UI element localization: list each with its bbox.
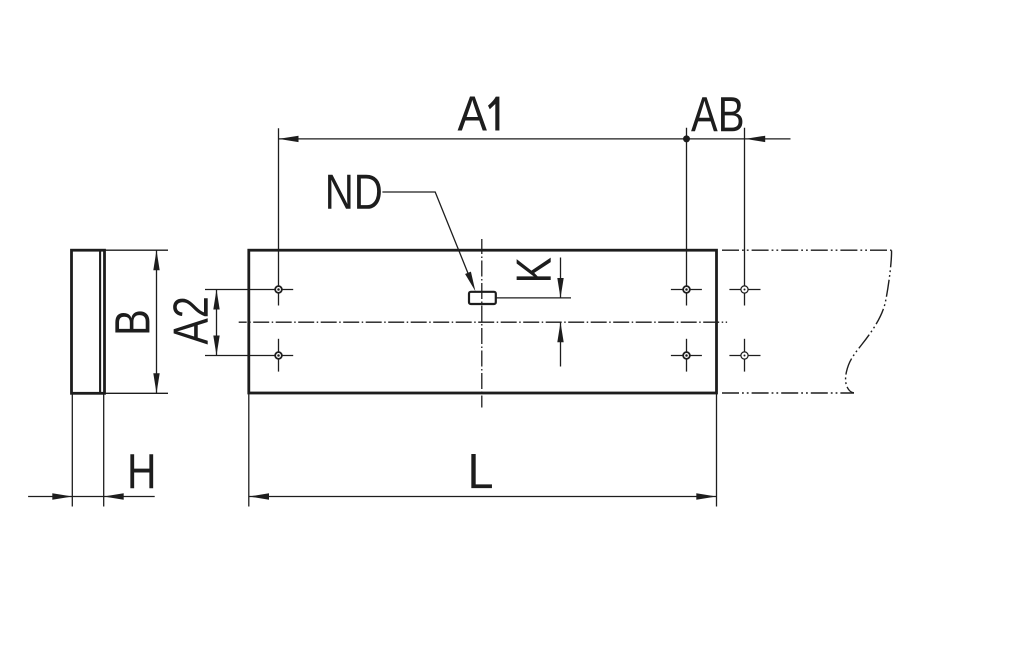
dimension H line bbox=[28, 496, 155, 498]
phantom hole top bbox=[741, 286, 748, 293]
upper crosshair right column bbox=[671, 289, 702, 291]
dimension K arrow up bbox=[557, 322, 563, 342]
lower crosshair right column bbox=[686, 339, 688, 372]
dimension L arrow left bbox=[249, 493, 269, 499]
extension line right for H bbox=[103, 393, 105, 506]
upper crosshair phantom column bbox=[729, 289, 760, 291]
extension line left for H bbox=[71, 393, 73, 506]
phantom hole bottom bbox=[741, 352, 748, 359]
lower crosshair phantom column bbox=[744, 339, 746, 372]
extension line right for L bbox=[716, 393, 718, 507]
phantom outline top bbox=[722, 249, 892, 251]
main plate outline bbox=[249, 250, 717, 393]
dimension K upper line bbox=[560, 258, 562, 299]
dimension A2 line bbox=[216, 290, 218, 356]
dimension L line bbox=[249, 496, 717, 498]
lower crosshair left column bbox=[278, 339, 280, 372]
dimension A1 arrow left bbox=[279, 136, 299, 142]
extension line left for L bbox=[248, 393, 250, 507]
lower crosshair phantom column bbox=[729, 355, 760, 357]
slot ND bbox=[469, 292, 496, 304]
side view plate outline bbox=[72, 250, 105, 393]
horizontal centerline bbox=[239, 321, 727, 323]
hole top-left bbox=[275, 286, 282, 293]
hole bottom-right bbox=[683, 352, 690, 359]
label A2 rotated bbox=[173, 298, 208, 344]
phantom break line bbox=[846, 250, 892, 392]
dimension H arrow pointing left bbox=[104, 493, 124, 499]
label A1 letter A bbox=[458, 96, 487, 130]
leader line from ND to slot bbox=[382, 192, 469, 277]
dimension B arrow down bbox=[153, 373, 159, 393]
dimension L arrow right bbox=[696, 493, 716, 499]
label ND bbox=[328, 175, 381, 209]
hole top-right bbox=[683, 286, 690, 293]
dimension K lower line bbox=[560, 322, 562, 366]
lower crosshair right column bbox=[671, 355, 702, 357]
dimension H arrow pointing right bbox=[52, 493, 72, 499]
dimension A1/AB junction dot bbox=[683, 135, 690, 142]
leader arrowhead bbox=[465, 272, 475, 292]
label A1 digit 1 bbox=[488, 97, 499, 131]
slot centerline extension for K bbox=[496, 297, 571, 299]
dimension A2 arrow up bbox=[213, 290, 219, 310]
phantom outline bottom bbox=[722, 392, 854, 394]
label H bbox=[130, 454, 153, 488]
extension line bottom of side view for B bbox=[105, 392, 168, 394]
extension line column right holes / A1-AB bbox=[686, 128, 688, 306]
lower row horizontal crosshair / A2 extension left bbox=[205, 355, 293, 357]
upper row horizontal crosshair / A2 extension left bbox=[205, 289, 293, 291]
dimension AB arrow left outside bbox=[745, 136, 765, 142]
dimension B line bbox=[156, 250, 158, 393]
label K rotated bbox=[517, 258, 551, 280]
label B rotated bbox=[115, 311, 149, 332]
dimension K arrow down bbox=[557, 278, 563, 298]
dimension A2 arrow down bbox=[213, 336, 219, 356]
side view inner edge line bbox=[99, 252, 101, 393]
vertical centerline of slot bbox=[481, 239, 483, 408]
dimension A1 / AB line bbox=[279, 138, 791, 140]
extension line top of side view for B bbox=[105, 249, 168, 251]
label L bbox=[471, 454, 492, 488]
dimension B arrow up bbox=[153, 250, 159, 270]
label AB bbox=[691, 97, 742, 131]
hole bottom-left bbox=[275, 352, 282, 359]
extension line column left holes / A1 bbox=[278, 128, 280, 305]
extension line column phantom holes / AB bbox=[744, 128, 746, 306]
